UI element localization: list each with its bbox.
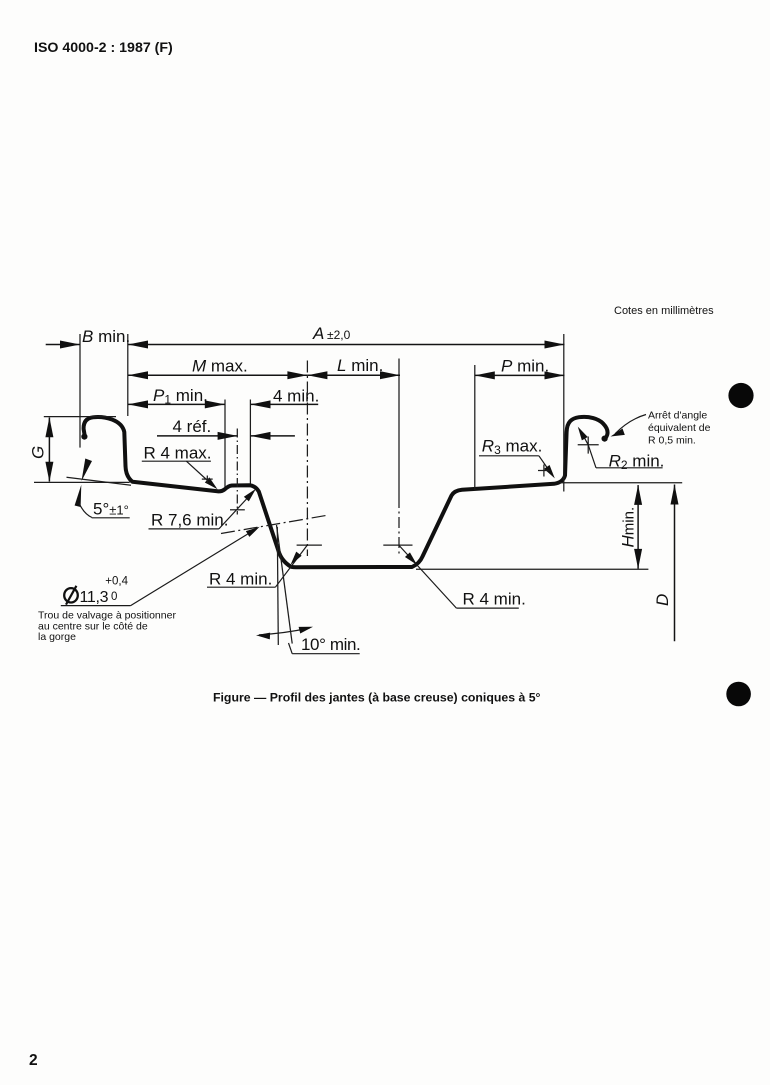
svg-text:la gorge: la gorge <box>38 631 76 643</box>
chain line L right to R4 cross x=399 <box>398 359 400 498</box>
dimension H min vertical <box>634 485 642 569</box>
dimension B min line <box>46 341 80 349</box>
svg-text:0: 0 <box>111 591 117 603</box>
svg-text:R 4 min.: R 4 min. <box>463 590 526 609</box>
rim profile hook end blob right <box>602 436 608 442</box>
dimension M max line <box>128 371 307 379</box>
dimension 4 min line (outside arrows, tail right) <box>251 400 319 408</box>
svg-text:R 4 min.: R 4 min. <box>209 569 272 588</box>
cross tick R7,6 center <box>230 509 245 511</box>
H top reference line <box>560 482 682 484</box>
registration dot upper right <box>728 383 753 408</box>
svg-text:M max.: M max. <box>192 357 248 376</box>
svg-text:R3 max.: R3 max. <box>482 437 543 458</box>
extension line B left x=80 <box>79 334 81 448</box>
leader from phi 11,3 to valve axis <box>131 529 257 606</box>
svg-text:P1 min.: P1 min. <box>153 386 208 407</box>
svg-text:±2,0: ±2,0 <box>327 328 351 342</box>
cross mark R4 right center <box>383 544 412 546</box>
extension line P1/4min x=225 <box>224 400 226 488</box>
registration dot lower right <box>726 682 751 707</box>
dimension G vertical line <box>45 417 53 482</box>
H bottom reference line <box>416 568 648 570</box>
svg-text:A: A <box>312 324 324 343</box>
rim profile hook end blob left <box>81 434 87 440</box>
G bottom horizontal reference line <box>34 481 130 483</box>
extension line A right x=564 <box>563 334 565 492</box>
svg-text:5°±1°: 5°±1° <box>93 500 129 519</box>
R2 radius arrow from cross to curl inner <box>581 431 589 445</box>
cross mark R3 center <box>538 470 550 472</box>
dimension 4 ref line (outside arrows) <box>157 432 295 440</box>
10 deg dimension arc with arrows <box>259 628 310 635</box>
dimension A line (shared with B right arrow) <box>128 341 565 349</box>
5 deg angle upper arrow <box>82 459 93 482</box>
10 deg construction line slanted <box>277 525 293 644</box>
5 deg angle lower arrow <box>75 485 82 507</box>
svg-text:2: 2 <box>29 1052 38 1069</box>
cross mark R4 left center <box>297 544 322 546</box>
dimension P1 min line <box>128 400 225 408</box>
svg-text:11,3: 11,3 <box>80 589 109 606</box>
svg-text:+0,4: +0,4 <box>105 576 128 588</box>
chain line M/L boundary to R4 cross x=307.4 <box>306 361 308 557</box>
extension line 4min/4ref x=250.4 <box>249 400 251 484</box>
svg-text:4 réf.: 4 réf. <box>173 417 212 436</box>
5 deg leader curve to label <box>79 503 92 518</box>
label phi 11,3 with tolerance underlined <box>64 588 78 602</box>
svg-text:L min.: L min. <box>337 356 383 375</box>
dimension D vertical <box>671 485 679 642</box>
10 deg construction line vertical <box>277 527 278 645</box>
svg-text:R2 min.: R2 min. <box>609 451 665 472</box>
G top extension line <box>44 416 116 418</box>
valve hole axis dash-dot line <box>221 515 327 533</box>
svg-text:R 0,5 min.: R 0,5 min. <box>648 435 696 447</box>
rim profile curve <box>81 417 607 567</box>
5 deg sloped construction line <box>67 477 132 485</box>
svg-text:Arrêt d'angle: Arrêt d'angle <box>648 409 707 421</box>
svg-text:Hmin.: Hmin. <box>619 507 638 548</box>
dimension P min line <box>475 371 565 379</box>
svg-text:D: D <box>653 594 672 606</box>
dimension L min line <box>307 371 400 379</box>
svg-text:Cotes en millimètres: Cotes en millimètres <box>614 305 714 317</box>
svg-text:R 4 max.: R 4 max. <box>144 444 212 463</box>
svg-text:Figure — Profil des jantes (: Figure — Profil des jantes (à base creus… <box>213 691 541 705</box>
extension line P left x=474.8 <box>474 365 476 490</box>
svg-text:équivalent de: équivalent de <box>648 422 711 434</box>
svg-text:10° min.: 10° min. <box>301 635 360 654</box>
svg-text:ISO 4000-2 : 1987 (F): ISO 4000-2 : 1987 (F) <box>34 40 173 56</box>
cross mark R2 center <box>578 444 599 446</box>
svg-text:Trou de valvage à positionner: Trou de valvage à positionner <box>38 609 176 621</box>
cross mark R4max center <box>202 478 213 480</box>
svg-text:G: G <box>29 446 48 459</box>
svg-text:B min.: B min. <box>82 327 130 346</box>
svg-text:4 min.: 4 min. <box>273 387 319 406</box>
extension line B right / flange outer x=128 <box>127 334 129 416</box>
svg-text:R 7,6 min.: R 7,6 min. <box>151 511 228 530</box>
centerline valve hole x=237 dash-dot <box>236 429 238 515</box>
svg-text:P min.: P min. <box>501 356 549 375</box>
